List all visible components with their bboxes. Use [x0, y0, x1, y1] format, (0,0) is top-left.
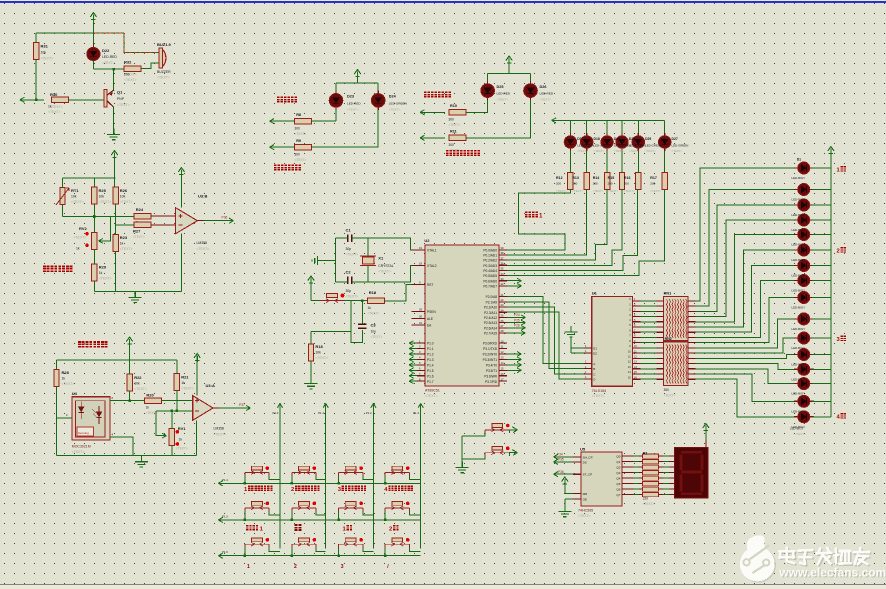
svg-text:<TEXT>: <TEXT> — [134, 387, 147, 391]
terminal arrow column 1 — [277, 403, 282, 408]
label U4 — [72, 391, 91, 454]
terminal arrow R8 — [270, 119, 275, 124]
svg-text:LM358: LM358 — [197, 241, 207, 245]
wire R31 top — [35, 33, 37, 43]
resistor network RN2 — [664, 342, 689, 386]
svg-text:P0.6/AD6: P0.6/AD6 — [483, 279, 497, 283]
svg-text:X1: X1 — [378, 256, 384, 261]
svg-text:<TEXT>: <TEXT> — [117, 103, 130, 107]
svg-text:LED-GREEN: LED-GREEN — [577, 144, 594, 148]
wire to buzzer pin1 — [124, 33, 160, 53]
resistor R8 — [295, 118, 312, 123]
svg-text:D24: D24 — [389, 95, 397, 99]
terminal arrow row 1 — [218, 481, 223, 486]
svg-text:P0.2/AD2: P0.2/AD2 — [483, 259, 497, 263]
svg-text:Q6: Q6 — [616, 488, 620, 492]
svg-text:30p: 30p — [346, 247, 352, 251]
wire key r3c2 left leg — [291, 547, 293, 555]
wire RN pin 16 to LED D16 — [695, 379, 797, 417]
svg-text:2: 2 — [291, 487, 294, 493]
terminal arrow R10 — [420, 110, 425, 115]
junction R31/base — [35, 99, 38, 102]
terminal arrow row 2 — [218, 517, 223, 522]
button key row2 col1 — [245, 502, 269, 512]
buzzer BUZ1 — [159, 48, 166, 68]
svg-text:LED-BIGY: LED-BIGY — [792, 274, 806, 278]
P2.4-P2.7 stub arrows — [507, 315, 526, 335]
svg-text:<TEXT>: <TEXT> — [120, 247, 133, 251]
svg-text:U4: U4 — [72, 391, 78, 396]
wire LED D6 to rail — [812, 249, 831, 251]
svg-text:www.elecfans.com: www.elecfans.com — [778, 565, 886, 579]
svg-text:LED-BIGY: LED-BIGY — [792, 289, 806, 293]
wire R18 bottom — [310, 361, 312, 377]
label R31 — [41, 44, 54, 61]
wire key r2c4 left leg — [384, 511, 386, 520]
svg-text:74HC595: 74HC595 — [578, 509, 593, 513]
svg-text:300: 300 — [449, 118, 455, 122]
svg-text:LED-RED: LED-RED — [347, 102, 361, 106]
resistor R13 — [584, 172, 589, 189]
svg-text:10k: 10k — [71, 195, 77, 199]
wire RN pin 1 to LED D1 — [695, 168, 797, 301]
svg-text:12: 12 — [501, 350, 504, 354]
svg-text:3: 3 — [341, 564, 344, 570]
svg-text:PSEN: PSEN — [427, 310, 436, 314]
svg-text:P2.4/A12: P2.4/A12 — [484, 316, 497, 320]
wire X1 bottom — [367, 266, 369, 282]
svg-text:D17: D17 — [577, 137, 583, 141]
svg-text:RV1: RV1 — [178, 426, 186, 431]
wire R17 to P0.5 — [507, 190, 665, 276]
terminal arrow U3:B out — [229, 218, 234, 223]
wire keypad row 3 — [218, 555, 420, 557]
svg-text:<TEXT>: <TEXT> — [592, 394, 605, 398]
wire U4 pin4 to rail — [110, 437, 133, 456]
svg-text:C1: C1 — [346, 228, 352, 233]
wire btn2 left — [462, 456, 485, 459]
label R10 — [449, 104, 461, 127]
svg-text:<TEXT>: <TEXT> — [594, 149, 605, 153]
LED D22 — [87, 44, 100, 63]
wire R19 to RST — [384, 284, 417, 301]
watermark text dianzifashaoyou (stroke glyphs) — [779, 548, 870, 565]
wire RN pin 4 to LED D4 — [695, 220, 797, 317]
svg-text:P2.0/A8: P2.0/A8 — [486, 295, 498, 299]
wire P2.0 to U1 A — [507, 297, 584, 364]
svg-text:R29: R29 — [99, 265, 107, 270]
svg-text:<TEXT>: <TEXT> — [795, 432, 806, 436]
svg-text:P34: P34 — [557, 452, 563, 456]
op-amp U3:A — [193, 396, 213, 421]
terminal arrow btn2 — [513, 450, 518, 455]
wire key r2c2 to column — [316, 511, 326, 515]
wire noninverting net — [63, 216, 134, 218]
LED D29 — [632, 133, 644, 151]
svg-text:R27: R27 — [133, 229, 141, 234]
label R1 — [643, 452, 655, 507]
svg-text:10u: 10u — [371, 330, 377, 334]
wire -input net — [156, 410, 193, 412]
resistor R25 — [92, 187, 97, 204]
terminal arrow P3.5 — [554, 459, 559, 464]
label R19 — [368, 290, 380, 316]
wire P2.2 to U1 C — [507, 307, 584, 374]
wire R24 to +input — [151, 215, 176, 217]
svg-text:R20: R20 — [146, 393, 154, 398]
label R29 — [99, 265, 112, 281]
svg-text:P1.0: P1.0 — [427, 342, 434, 346]
svg-text:<TEXT>: <TEXT> — [214, 432, 227, 436]
wire R25 top — [93, 178, 95, 187]
wire R16 to P0.4 — [507, 190, 638, 271]
svg-text:<TEXT>: <TEXT> — [157, 76, 170, 80]
svg-text:24: 24 — [501, 308, 504, 312]
label C1 — [346, 228, 359, 257]
wire opamp output — [204, 220, 233, 222]
wire Q1 collector to ground — [113, 108, 115, 129]
wire LED D15 to rail — [812, 400, 831, 402]
wire cap left rail — [334, 238, 336, 282]
U2 P1 pins — [409, 339, 434, 383]
wire to R30 — [20, 99, 44, 101]
wire RN pin 15 to LED D15 — [695, 374, 797, 401]
svg-text:LED-BIGY: LED-BIGY — [790, 427, 804, 431]
button key row3 col3 — [339, 538, 363, 548]
wire R11 left — [420, 137, 445, 139]
wire top rail smoke — [57, 359, 177, 361]
wire R28 bottom / left drop — [56, 386, 58, 455]
label R26 — [120, 188, 133, 204]
LED D12 floor column — [794, 349, 814, 361]
svg-text:LED-BIGY: LED-BIGY — [792, 327, 806, 331]
terminal arrow column 4 — [418, 403, 423, 408]
svg-text:33: 33 — [501, 277, 504, 281]
decoder U1 74LS154 — [592, 297, 633, 387]
label D24 — [389, 95, 407, 112]
wire C2 left — [335, 281, 347, 283]
wire C1 left — [335, 237, 347, 239]
svg-text:R17: R17 — [650, 176, 657, 180]
wire LED D14 to rail — [812, 383, 831, 385]
button key row1 col1 — [245, 466, 269, 476]
button door switch 2 — [485, 446, 509, 456]
svg-text:<TEXT>: <TEXT> — [41, 56, 54, 60]
resistor R32 — [124, 66, 141, 71]
power terminal alarm leds — [506, 56, 512, 65]
shift register U5 74HC595 — [581, 452, 622, 506]
svg-text:P3.2/INT0: P3.2/INT0 — [483, 353, 498, 357]
svg-text:39: 39 — [501, 246, 504, 250]
wire R9 left — [270, 146, 295, 148]
wire R10 left — [420, 111, 445, 113]
wire drop to D18 — [586, 120, 588, 133]
wire R30 to Q1 base — [69, 99, 104, 101]
wire keypad column 4 — [420, 403, 422, 548]
svg-text:LED-BIGY: LED-BIGY — [792, 306, 806, 310]
LED D6 floor column — [794, 244, 814, 256]
wire R21 top — [176, 360, 178, 374]
svg-text:<TEXT>: <TEXT> — [176, 447, 188, 451]
power terminal U3:B — [178, 168, 184, 177]
wire node to R32 — [93, 68, 123, 70]
svg-text:P24: P24 — [514, 313, 520, 317]
button key row3 col1 — [245, 538, 269, 548]
wire RV2 wiper loop — [99, 217, 111, 241]
svg-text:BUZZER: BUZZER — [157, 70, 171, 74]
LED D13 floor column — [794, 363, 814, 375]
wire LED D11 to rail — [812, 337, 831, 339]
button key row2 col4 — [385, 502, 409, 512]
svg-text:Sensing: Sensing — [78, 431, 89, 435]
wire RV1 bottom — [171, 446, 173, 456]
svg-text:P3.4/T0: P3.4/T0 — [486, 363, 497, 367]
label C3 — [371, 323, 383, 340]
label R25 — [99, 188, 112, 204]
terminal arrow R11 — [420, 135, 425, 140]
svg-text:200: 200 — [650, 182, 655, 186]
svg-text:R13: R13 — [572, 176, 579, 180]
svg-text:AT89C51: AT89C51 — [425, 389, 440, 393]
svg-text:<TEXT>: <TEXT> — [650, 189, 661, 193]
resistor R31 — [34, 43, 39, 60]
LED D8 floor column — [794, 275, 814, 287]
wire OE to gnd — [565, 498, 573, 500]
labels floor LEDs — [790, 158, 806, 437]
svg-text:LED-GREEN: LED-GREEN — [672, 144, 689, 148]
LED D16 floor column — [794, 411, 814, 423]
svg-text:P1.0: P1.0 — [273, 411, 279, 415]
wire D27 to R17 — [664, 151, 666, 173]
wire R15 to P0.3 — [507, 190, 622, 266]
U2 left control pins — [412, 246, 437, 328]
svg-text:<TEXT>: <TEXT> — [389, 108, 401, 112]
resistor R30 — [52, 97, 69, 102]
RN left pins — [656, 301, 663, 379]
label R9 — [295, 139, 307, 162]
potentiometer RV2 — [92, 232, 97, 249]
wire key r1c1 left leg — [244, 476, 246, 484]
svg-text:26: 26 — [501, 319, 504, 323]
svg-text:R25: R25 — [99, 188, 107, 193]
wire R10 to D25 — [466, 100, 488, 112]
wire U3:A output — [219, 407, 250, 409]
svg-text:10k: 10k — [99, 195, 105, 199]
wire C2 to XTAL2 — [352, 266, 417, 282]
svg-text:LED-BIGY: LED-BIGY — [792, 228, 806, 232]
terminal arrow ward led rail — [552, 118, 557, 123]
terminal arrow R9 — [270, 145, 275, 150]
label R22 — [134, 375, 147, 391]
svg-text:P1.5: P1.5 — [222, 514, 228, 518]
resistor R17 — [662, 172, 667, 189]
button key row2 col2 — [292, 502, 316, 512]
svg-text:D29: D29 — [645, 137, 651, 141]
svg-text:R32: R32 — [124, 60, 132, 65]
svg-text:P1.3: P1.3 — [413, 411, 419, 415]
svg-text:P3.0/RXD: P3.0/RXD — [483, 342, 498, 346]
transistor Q1 PNP — [104, 90, 114, 108]
wire D29 to R16 — [637, 151, 639, 173]
wire RV1 wiper — [156, 411, 167, 436]
wire power to R26 top — [114, 158, 116, 187]
svg-text:P3.1/TXD: P3.1/TXD — [483, 347, 498, 351]
resistor R23 — [113, 234, 118, 251]
wire RN pin 12 to LED D12 — [695, 355, 797, 359]
svg-text:R28: R28 — [62, 370, 70, 375]
label X1 — [378, 256, 393, 274]
svg-text:ALE: ALE — [427, 317, 433, 321]
svg-text:200: 200 — [624, 182, 629, 186]
svg-text:P1.2: P1.2 — [366, 411, 372, 415]
power terminal reset — [308, 276, 314, 285]
label BUZ1 — [157, 42, 172, 80]
wire power to display — [705, 431, 707, 440]
LED D3 floor column — [794, 199, 814, 211]
wire P3.4 to SH_CP — [554, 456, 574, 458]
power terminal temp section — [111, 151, 117, 160]
resistor R14 — [604, 172, 609, 189]
svg-text:P2.1/A9: P2.1/A9 — [486, 300, 498, 304]
microcontroller U2 AT89C51 — [425, 245, 499, 386]
svg-text:LED-BIGY: LED-BIGY — [792, 176, 806, 180]
svg-text:<TEXT>: <TEXT> — [197, 247, 210, 251]
svg-text:21: 21 — [501, 293, 504, 297]
wire R14 to P0.2 — [507, 190, 607, 261]
svg-text:BUZ1.9: BUZ1.9 — [157, 42, 172, 47]
wire power to opamp top — [180, 175, 182, 208]
svg-text:P1.1: P1.1 — [318, 411, 324, 415]
label R8 — [295, 113, 307, 136]
svg-text:13: 13 — [501, 356, 504, 360]
svg-text:LED-BIGY: LED-BIGY — [792, 243, 806, 247]
svg-text:R10: R10 — [450, 104, 457, 108]
wire drop to D19 — [606, 120, 608, 133]
svg-text:<TEXT>: <TEXT> — [120, 200, 133, 204]
resistor R11 — [449, 135, 466, 140]
wire LED D9 to rail — [812, 297, 831, 299]
label D25 — [497, 85, 511, 102]
wire key r2c3 left leg — [338, 511, 340, 520]
svg-text:30p: 30p — [346, 289, 352, 293]
wire RT1 top — [62, 178, 64, 187]
wire btn1 right — [509, 430, 516, 433]
wire R27 to -input — [151, 224, 176, 226]
thermistor RT1 — [60, 188, 65, 205]
wire led column rail — [830, 154, 832, 417]
label U2 — [424, 238, 440, 398]
wire LED D5 to rail — [812, 234, 831, 236]
terminal arrow column 3 — [371, 403, 376, 408]
svg-text:MOC3021M: MOC3021M — [72, 445, 91, 449]
svg-text:LED-BIGY: LED-BIGY — [792, 363, 806, 367]
svg-text:D18: D18 — [594, 137, 600, 141]
wire P2.3 to U1 D — [507, 312, 584, 379]
svg-text:30: 30 — [419, 314, 422, 318]
svg-text:LED-BIGY: LED-BIGY — [792, 213, 806, 217]
svg-text:LED-RED: LED-RED — [102, 55, 117, 59]
svg-text:<TEXT>: <TEXT> — [295, 132, 307, 136]
labels P3.4 P3.5 P3.6 — [557, 452, 564, 473]
wire key r1c4 left leg — [384, 476, 386, 484]
wire keypad column 1 — [279, 403, 281, 548]
resistor network RN1 — [664, 297, 689, 341]
resistor R21 — [174, 374, 179, 391]
wire drop to D29 — [637, 120, 639, 133]
svg-text:P25: P25 — [514, 318, 520, 322]
svg-text:19: 19 — [419, 246, 422, 250]
label U1 — [592, 291, 606, 399]
wire C1 to XTAL1 — [352, 238, 417, 250]
svg-text:P37: P37 — [239, 403, 245, 407]
label RV1 — [176, 426, 188, 451]
wire key r3c2 to column — [316, 547, 326, 551]
label U5 — [578, 447, 593, 519]
wire key r3c1 left leg — [244, 547, 246, 555]
wire enable2 — [571, 352, 584, 354]
svg-text:14: 14 — [501, 361, 504, 365]
svg-text:1k: 1k — [76, 247, 80, 251]
P0.6-P0.7 stub arrows — [507, 278, 522, 288]
label U3:B — [197, 194, 210, 251]
wire key r1c2 to column — [316, 476, 326, 480]
svg-text:R23: R23 — [120, 235, 128, 240]
wire RN pin 6 to LED D6 — [695, 250, 797, 327]
wire LED D3 to rail — [812, 204, 831, 206]
wire RN pin 5 to LED D5 — [695, 235, 797, 322]
svg-text:P1.5: P1.5 — [427, 369, 434, 373]
svg-text:P2.3/A11: P2.3/A11 — [484, 311, 497, 315]
LED D27 — [659, 133, 671, 151]
svg-text:D19: D19 — [614, 137, 620, 141]
svg-text:1k: 1k — [146, 406, 150, 410]
label R28 — [62, 370, 75, 386]
svg-text:P1.4: P1.4 — [427, 363, 434, 367]
svg-text:16: 16 — [501, 372, 504, 376]
wire top rail temp — [63, 177, 116, 179]
LED D26 — [524, 81, 538, 101]
svg-text:OE: OE — [583, 498, 587, 502]
resistor R18 — [308, 344, 313, 361]
wire button to R19 — [344, 300, 367, 302]
wire gnd rail temp — [94, 290, 181, 292]
svg-text:200: 200 — [124, 73, 130, 77]
potentiometer RV1 — [169, 429, 174, 446]
keypad column labels — [273, 411, 420, 415]
wire key r2c1 left leg — [244, 511, 246, 520]
wire U3:A out stub — [213, 407, 219, 409]
LED D2 floor column — [794, 184, 814, 196]
svg-text:D22: D22 — [102, 48, 110, 53]
op-amp U3:B — [176, 208, 198, 234]
wire gnd rail smoke — [57, 455, 197, 457]
svg-text:1k: 1k — [48, 105, 52, 109]
capacitor C2 — [348, 276, 352, 284]
svg-text:220: 220 — [643, 497, 649, 501]
svg-text:P1.6: P1.6 — [222, 550, 228, 554]
svg-text:P1.7: P1.7 — [427, 380, 434, 384]
label RV2 — [74, 226, 88, 251]
wire R32 to buzzer pin2 — [141, 63, 160, 69]
wire C3 top to RST net — [361, 301, 363, 316]
svg-text:200: 200 — [572, 182, 577, 186]
svg-text:1k: 1k — [120, 242, 124, 246]
ground smoke section — [135, 456, 148, 467]
label D26 — [540, 85, 554, 102]
svg-text:LED-BIGY: LED-BIGY — [792, 392, 806, 396]
wire to U4 pin2 — [57, 417, 72, 419]
svg-text:<TEXT>: <TEXT> — [50, 105, 63, 109]
